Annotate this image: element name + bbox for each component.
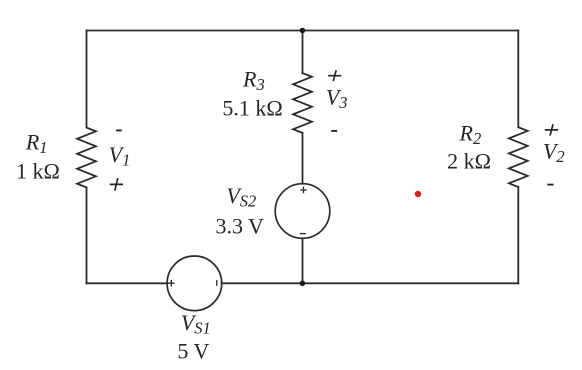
voltage source VS1 (167, 256, 222, 311)
wire middle between R3 and VS2 (302, 133, 304, 184)
svg-text:2 kΩ: 2 kΩ (447, 149, 491, 174)
svg-text:VS2: VS2 (226, 183, 256, 211)
wire right lower (517, 187, 519, 283)
VS1 plus mark (168, 280, 175, 287)
resistor R2 (509, 127, 528, 187)
polarity minus V1 (116, 129, 122, 131)
svg-text:R1: R1 (25, 130, 48, 158)
svg-text:VS1: VS1 (181, 310, 211, 338)
polarity plus V3 (328, 70, 341, 81)
polarity plus V1 (110, 178, 123, 191)
resistor R3 (293, 73, 312, 133)
svg-text:R3: R3 (242, 67, 265, 95)
svg-text:5 V: 5 V (177, 338, 209, 363)
svg-text:1 kΩ: 1 kΩ (16, 159, 60, 184)
node junction top (300, 28, 306, 34)
svg-text:V3: V3 (326, 85, 348, 113)
svg-text:5.1 kΩ: 5.1 kΩ (222, 96, 282, 121)
svg-text:3.3 V: 3.3 V (215, 213, 264, 238)
VS2 minus mark (300, 233, 306, 235)
polarity minus V3 (331, 130, 337, 132)
wire bottom right of VS1 (222, 282, 519, 284)
resistor R1 (77, 128, 96, 188)
polarity plus V2 (545, 124, 558, 136)
VS1 minus mark (rotated) (216, 280, 218, 286)
VS2 plus mark (300, 187, 307, 194)
node junction bottom (300, 281, 306, 287)
svg-text:R2: R2 (459, 120, 482, 148)
wire left lower (86, 187, 88, 283)
wire left upper (86, 31, 88, 128)
svg-text:V1: V1 (109, 142, 131, 170)
wire right upper (517, 31, 519, 128)
node marker red (415, 191, 421, 197)
polarity minus V2 (547, 184, 553, 186)
voltage source VS2 (275, 184, 330, 239)
wire middle lower (302, 238, 304, 283)
svg-text:V2: V2 (543, 139, 565, 167)
wire middle upper (302, 31, 304, 74)
wire top (87, 30, 519, 32)
wire bottom left (87, 282, 168, 284)
